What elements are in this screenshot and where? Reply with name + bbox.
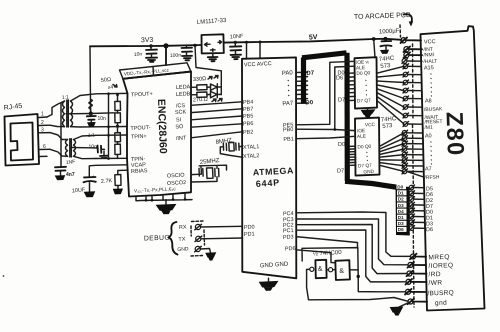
- output fan latch2 to Z80 connector: [380, 133, 405, 147]
- svg-text:TPIN+: TPIN+: [131, 134, 147, 141]
- svg-text:100n: 100n: [170, 52, 182, 59]
- control circles: [405, 254, 427, 305]
- regulator LM1117-33: [197, 18, 227, 61]
- dots A1..A6: [431, 142, 432, 165]
- svg-text:LEDB: LEDB: [176, 91, 191, 98]
- wire RX to PD0: [201, 225, 242, 228]
- svg-text:XTAL1: XTAL1: [243, 144, 260, 151]
- resistor R 50ohm #4: [115, 144, 121, 154]
- svg-text:PD0: PD0: [244, 224, 255, 231]
- wire T1 sec bottom to TPOUT-: [71, 126, 97, 128]
- junction dot latch vcc: [372, 37, 376, 41]
- svg-text:Z80: Z80: [442, 111, 470, 157]
- inter-gate bubble: [329, 268, 333, 272]
- capacitor 1nF center tap: [55, 159, 76, 180]
- svg-text:PD1: PD1: [244, 231, 255, 238]
- svg-text:/BUSRQ: /BUSRQ: [427, 290, 454, 298]
- svg-text:2.7K: 2.7K: [101, 178, 113, 185]
- svg-text:1: 1: [41, 112, 44, 118]
- junction dot: [149, 44, 152, 47]
- wire PC4 to /MREQ: [296, 212, 411, 256]
- ground symbol latch1: [367, 108, 369, 110]
- svg-text:74HC: 74HC: [379, 56, 395, 63]
- svg-text:D3: D3: [398, 221, 404, 226]
- connector RJ-45 inner jack: [11, 123, 34, 161]
- svg-text:/M1: /M1: [424, 125, 433, 131]
- resistor 2.7K RBIAS: [115, 175, 121, 186]
- svg-text:50Ω: 50Ω: [101, 77, 112, 84]
- svg-text:OSCO2: OSCO2: [167, 180, 187, 187]
- svg-text:/RD: /RD: [428, 271, 441, 278]
- wire T2 pri top to pin3: [50, 133, 68, 140]
- svg-text:/BUSAK: /BUSAK: [424, 106, 443, 113]
- brace: [169, 222, 178, 255]
- svg-text:XTAL2: XTAL2: [243, 153, 260, 160]
- svg-text:PC1: PC1: [283, 228, 294, 235]
- svg-text:D0: D0: [338, 71, 345, 77]
- svg-text:D0: D0: [305, 100, 314, 107]
- wire SI to PB5: [191, 116, 242, 120]
- wire T1 pri bottom to pin2: [50, 125, 65, 126]
- capacitor 10n: [134, 46, 157, 62]
- wire OSCO: [191, 177, 217, 182]
- gate 2: [335, 260, 350, 280]
- svg-text:ALE: ALE: [356, 65, 365, 71]
- svg-text:D1: D1: [398, 215, 404, 220]
- wire termination vertical: [108, 94, 110, 159]
- wire /CS to PB4: [191, 102, 242, 106]
- svg-text:/OE v₍: /OE v₍: [356, 59, 369, 66]
- wire TPIN- line: [96, 157, 127, 159]
- dots PA: [288, 80, 290, 96]
- svg-text:SCK: SCK: [175, 109, 187, 116]
- svg-text:2: 2: [41, 120, 44, 126]
- svg-text:TO ARCADE PCB: TO ARCADE PCB: [354, 12, 411, 21]
- wire VCC drop: [246, 42, 248, 58]
- IC 74HC573 #1 body: [355, 57, 378, 108]
- junction dot VCC: [245, 41, 248, 44]
- junction dot 1000uF: [384, 37, 388, 41]
- svg-text:½ 74HC00: ½ 74HC00: [313, 249, 343, 258]
- svg-text:&: &: [339, 268, 344, 275]
- wire T2 sec bottom to TPIN-: [74, 156, 97, 158]
- dashed connector line: [400, 25, 414, 307]
- wire /INT to PB2: [191, 132, 242, 138]
- wire center-tap bus: [60, 104, 62, 167]
- svg-text:D2: D2: [398, 197, 404, 202]
- svg-text:ENC(28J60: ENC(28J60: [155, 99, 169, 154]
- pin 6: [39, 148, 50, 150]
- wire PC2 to /RD: [296, 225, 407, 274]
- wire RBIAS: [118, 170, 127, 174]
- wire OSCI: [191, 169, 201, 174]
- svg-text:PB1: PB1: [283, 136, 294, 143]
- output fan latch1 to Z80 connector: [377, 66, 404, 73]
- address group 1 circles: [403, 64, 422, 127]
- svg-text:/CS: /CS: [176, 103, 186, 109]
- svg-text:10n: 10n: [98, 116, 107, 122]
- svg-text:PB4: PB4: [243, 99, 254, 106]
- LED B row: resistor: [191, 94, 197, 96]
- svg-text:10NF: 10NF: [230, 34, 244, 41]
- pin stub: [39, 155, 47, 157]
- bus bottom horizontal: [345, 181, 399, 187]
- svg-text:ALE: ALE: [357, 134, 366, 140]
- svg-text:PB7: PB7: [243, 106, 254, 113]
- IC Z80 body: [421, 26, 485, 310]
- wire T1 pri top to pin1: [47, 101, 65, 117]
- svg-text:TPOUT-: TPOUT-: [130, 125, 151, 132]
- svg-text:/INT: /INT: [176, 135, 187, 142]
- resistor R 50ohm #3: [117, 126, 119, 144]
- svg-text:PA0: PA0: [282, 70, 294, 77]
- transformer T1 1:1: [47, 94, 96, 127]
- transformer T2 1:1: [50, 132, 96, 158]
- svg-text:PB5: PB5: [243, 113, 254, 120]
- wire 3V3 drop left: [89, 46, 92, 114]
- wire AVCC drop: [259, 42, 261, 58]
- wire TPOUT+ line: [96, 92, 128, 94]
- svg-text:1000µF: 1000µF: [379, 28, 400, 35]
- svg-text:gnd: gnd: [435, 300, 447, 307]
- svg-text:SO: SO: [175, 124, 184, 130]
- svg-text:D1: D1: [398, 191, 404, 196]
- pin circle /HALT: [402, 59, 422, 64]
- wire T2 sec top to TPIN+: [74, 135, 97, 139]
- dots: [367, 152, 368, 161]
- svg-text:/OE: /OE: [357, 128, 366, 134]
- ground symbol ENC: [165, 200, 167, 205]
- wire arcade arrow: [404, 14, 412, 24]
- wire SO to PB6: [191, 124, 242, 127]
- svg-text:D7: D7: [306, 70, 315, 77]
- wire TPOUT- line: [96, 126, 127, 128]
- svg-text:D6: D6: [426, 227, 433, 233]
- junction dot (bold): [163, 43, 168, 48]
- pin circle /INT: [404, 47, 423, 53]
- capacitor 100n: [170, 46, 192, 61]
- svg-text:A0: A0: [425, 133, 432, 139]
- net 5V rail: [224, 39, 402, 43]
- svg-text:VCC AVCC: VCC AVCC: [244, 61, 272, 68]
- capacitor 10n T2 tap: [71, 145, 108, 159]
- svg-text:D4: D4: [398, 209, 404, 214]
- svg-text:270.Ω: 270.Ω: [193, 97, 208, 104]
- wire center tap node: [66, 113, 114, 114]
- wire GND to ground: [200, 249, 210, 253]
- wire TPIN+ line: [96, 134, 127, 136]
- svg-text:&: &: [318, 266, 323, 273]
- wire PC1 to /WR: [296, 230, 406, 282]
- wire PB0 to latch2 /OE and latch1 LE: [296, 129, 355, 130]
- bus vertical bar at PA: [301, 58, 306, 104]
- wire gate1 input to gnd row: [307, 269, 408, 301]
- wire SCK to PB7: [191, 109, 242, 113]
- svg-text:D6: D6: [398, 227, 404, 232]
- svg-text:1NF: 1NF: [66, 159, 76, 166]
- svg-text:LM1117-33: LM1117-33: [197, 18, 227, 26]
- wire PD3 to 74HC00: [296, 237, 358, 248]
- wire PB1 to latch2 LE: [296, 136, 355, 138]
- svg-text:PD3: PD3: [283, 234, 294, 241]
- capacitor 10uF VCAP: [84, 177, 96, 182]
- pin circle GND: [195, 246, 200, 251]
- svg-text:D7: D7: [338, 98, 345, 104]
- svg-text:573: 573: [382, 123, 393, 130]
- ferrite bead in 3V3 drop: [89, 100, 92, 114]
- svg-text:10UF: 10UF: [72, 187, 87, 194]
- wire T2 pri bottom to pin6: [50, 149, 68, 156]
- svg-text:74HC: 74HC: [381, 116, 397, 123]
- svg-text:D0 Q0: D0 Q0: [357, 144, 371, 151]
- svg-text:/HALT: /HALT: [423, 59, 437, 65]
- bus ladder rungs PA0-PA7: [296, 72, 308, 103]
- svg-text:OSCIO: OSCIO: [167, 173, 186, 180]
- junction dot AVCC: [259, 41, 262, 44]
- svg-text:PD6: PD6: [285, 246, 296, 253]
- svg-text:TPOUT+: TPOUT+: [131, 91, 153, 98]
- LED A diode: [211, 84, 218, 91]
- wire 3V3 to VDD (bold): [165, 46, 167, 65]
- ground symbol debug: [206, 253, 216, 257]
- crystal 8MHz: [215, 138, 242, 157]
- svg-text:x4: x4: [108, 84, 114, 91]
- junction dot: [193, 44, 196, 47]
- svg-text:ATMEGA: ATMEGA: [253, 165, 295, 177]
- svg-text:LEDA: LEDA: [176, 84, 191, 91]
- svg-text:10n: 10n: [134, 51, 143, 58]
- speck: [3, 275, 5, 277]
- svg-text:644P: 644P: [255, 177, 280, 189]
- svg-text:6: 6: [43, 144, 46, 150]
- svg-text:MREQ: MREQ: [428, 254, 450, 262]
- ground symbol z80 gnd: [391, 307, 403, 312]
- LED B diode: [211, 91, 218, 98]
- capacitor 10n T1 tap: [87, 114, 106, 127]
- IC ENC28J60 body: [123, 72, 191, 197]
- svg-text:/WR: /WR: [428, 280, 442, 287]
- capacitor 1000uF: [379, 28, 400, 53]
- capacitor 10NF: [230, 34, 244, 60]
- resistor R 50ohm #2: [117, 123, 119, 126]
- pin 3: [39, 132, 50, 134]
- svg-text:D7: D7: [337, 169, 344, 175]
- wire gate2 output to /BUSRQ: [350, 270, 406, 292]
- svg-text:330Ω: 330Ω: [193, 76, 207, 83]
- svg-text:DEBUG: DEBUG: [144, 235, 170, 243]
- svg-text:A15: A15: [424, 65, 434, 71]
- pin 1: [39, 116, 47, 119]
- white pin boxes with D labels: [397, 184, 407, 232]
- svg-text:VCC: VCC: [424, 39, 436, 45]
- D row circles on black bar: [409, 185, 425, 231]
- svg-text:D7 Q7: D7 Q7: [357, 98, 371, 105]
- pin circle TX: [196, 236, 201, 241]
- power banner VDD: [120, 63, 192, 79]
- dots: [366, 80, 367, 95]
- svg-text:/NMI: /NMI: [423, 52, 434, 58]
- svg-text:+: +: [92, 174, 95, 179]
- svg-text:3: 3: [41, 128, 44, 134]
- ground symbol ATMEGA: [268, 278, 270, 281]
- svg-text:D0: D0: [338, 142, 345, 148]
- svg-text:D0: D0: [397, 185, 403, 190]
- address group 2 circles: [402, 130, 423, 177]
- dashed connector outline: [191, 221, 205, 256]
- svg-text:TX: TX: [178, 236, 186, 242]
- svg-text:GND: GND: [177, 246, 189, 253]
- svg-text:SI: SI: [176, 117, 182, 123]
- svg-text:PB0: PB0: [283, 127, 294, 134]
- svg-text:573: 573: [380, 63, 391, 70]
- svg-text:D0 Q0: D0 Q0: [356, 70, 370, 77]
- svg-text:PA7: PA7: [282, 101, 294, 108]
- dots A14..A8: [431, 74, 432, 97]
- svg-text:GND GND: GND GND: [260, 261, 289, 269]
- wire TX to PD1: [201, 237, 242, 240]
- ground bar under ENC: [136, 193, 192, 201]
- gate 1: [315, 260, 326, 278]
- input stubs from bus: [350, 146, 356, 165]
- resistor R 50ohm #1: [117, 95, 119, 113]
- wire PC3 to /IOREQ: [296, 219, 408, 265]
- LED A row: resistor: [191, 86, 197, 88]
- IC ATMEGA644P body: [242, 57, 296, 278]
- connector RJ-45 outer box: [5, 114, 40, 166]
- crystal 25MHz: [191, 158, 227, 182]
- wire T1 sec top to TPOUT+: [71, 94, 97, 101]
- gate1 input bubble: [310, 267, 314, 271]
- IC 74HC573 #2 body: [355, 118, 380, 176]
- svg-text:RBIAS: RBIAS: [131, 168, 148, 175]
- pin circle RX: [195, 224, 200, 229]
- svg-text:/RFSH: /RFSH: [424, 174, 440, 181]
- svg-text:RJ-45: RJ-45: [3, 103, 22, 112]
- black bus bar: [396, 186, 410, 236]
- pin 2: [39, 124, 50, 126]
- svg-text:3V3: 3V3: [141, 37, 154, 44]
- input stubs from bus: [350, 73, 356, 101]
- svg-text:D7 Q7: D7 Q7: [358, 163, 372, 170]
- wire LED feed from 3V3: [195, 45, 221, 94]
- svg-text:GND: GND: [363, 169, 374, 176]
- pin circle VCC: [401, 38, 422, 44]
- IC 74HC00 outline: [302, 248, 358, 277]
- svg-text:A7: A7: [425, 166, 432, 172]
- wire PD6 to gate2: [296, 250, 336, 263]
- bus top horizontal: [302, 53, 347, 58]
- wire VCAP: [89, 165, 127, 177]
- svg-text:PB6: PB6: [243, 121, 254, 128]
- svg-text:VCC: VCC: [365, 122, 376, 129]
- svg-text:/IOREQ: /IOREQ: [428, 262, 453, 270]
- svg-text:5V: 5V: [309, 34, 318, 41]
- wire latch1 VCC drop: [374, 39, 375, 58]
- svg-text:RX: RX: [179, 224, 187, 231]
- net 3V3 rail: [90, 45, 202, 46]
- bus long vertical: [344, 53, 349, 181]
- svg-text:PB2: PB2: [243, 129, 254, 136]
- wire gnd pin to ground: [399, 303, 408, 307]
- wire PE5 to latch1 /OE: [296, 61, 355, 125]
- pin circle /NMI: [404, 52, 423, 58]
- svg-text:A8: A8: [425, 98, 432, 104]
- svg-text:4n7: 4n7: [66, 172, 75, 178]
- svg-text:D3: D3: [398, 203, 404, 208]
